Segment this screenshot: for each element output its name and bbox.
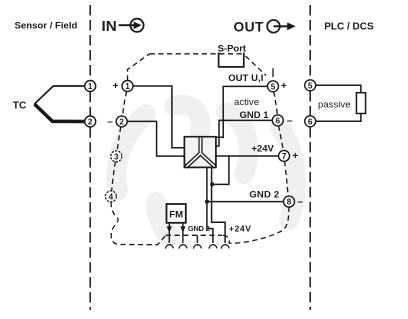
wire +24V rail to terminal 7 xyxy=(229,155,279,157)
device terminal 1 xyxy=(122,81,133,92)
device terminal 8 xyxy=(284,196,295,207)
wire isolator output to terminal 5 (OUT U,I) xyxy=(216,86,268,137)
svg-text:2: 2 xyxy=(119,117,124,126)
device outline dashed top-left xyxy=(128,54,150,81)
boundary terminal 6 (right) xyxy=(305,116,316,127)
svg-text:active: active xyxy=(234,97,259,108)
device terminal 4 (dashed, unused) xyxy=(105,191,116,202)
wire PLC terminal 5 to load resistor xyxy=(316,85,361,92)
svg-text:5: 5 xyxy=(271,82,276,91)
svg-text:5: 5 xyxy=(308,81,313,90)
device outline dashed top-right diagonal xyxy=(246,56,267,76)
device outline dashed left edge segment 3-4 xyxy=(112,162,116,192)
svg-text:+: + xyxy=(281,81,287,92)
svg-text:OUT U,I: OUT U,I xyxy=(228,73,263,84)
svg-text:3: 3 xyxy=(114,152,119,161)
svg-text:8: 8 xyxy=(287,198,292,207)
svg-text:1: 1 xyxy=(125,82,130,91)
FM module box xyxy=(167,204,186,223)
svg-text:–: – xyxy=(107,116,113,127)
ground contact symbol 3 xyxy=(194,245,202,249)
housing ground stub xyxy=(196,235,198,243)
device terminal 6 xyxy=(272,115,283,126)
OUT icon (circle with arrow out) xyxy=(267,20,287,33)
FM ground wire right with arrow xyxy=(182,223,184,243)
svg-text:+24V: +24V xyxy=(251,144,274,155)
junction dot GND 2 xyxy=(205,200,209,204)
field boundary dashed line (left) xyxy=(89,5,91,310)
junction dot +24V xyxy=(210,182,214,186)
svg-text:1: 1 xyxy=(88,82,93,91)
svg-text:GND 1: GND 1 xyxy=(240,110,270,121)
svg-text:+: + xyxy=(113,81,119,92)
wire load resistor to PLC terminal 6 xyxy=(316,114,361,122)
thermocouple TC lower wire (thick) xyxy=(34,104,85,122)
boundary terminal 2 (left) xyxy=(85,116,96,127)
wire terminal1 to isolator input xyxy=(133,86,185,148)
wire isolator to terminal 6 (GND 1) xyxy=(216,120,273,146)
svg-text:–: – xyxy=(287,115,293,126)
device outline dashed right edge segment 7-8 xyxy=(285,161,289,196)
device terminal 3 (dashed, unused) xyxy=(111,151,122,162)
watermark logo xyxy=(116,105,295,236)
device outline dashed bottom-right xyxy=(223,207,289,243)
device outline dashed left edge segment 2-3 xyxy=(117,127,121,152)
svg-text:6: 6 xyxy=(276,116,281,125)
isolation amplifier U1 xyxy=(184,137,216,168)
svg-text:PLC / DCS: PLC / DCS xyxy=(324,22,374,33)
PLC boundary dashed line (right) xyxy=(309,5,311,310)
device outline dashed bottom raised segment xyxy=(166,234,222,236)
device terminal 2 xyxy=(116,116,127,127)
wire GND 2 to terminal 8 xyxy=(207,201,284,203)
boundary terminal 5 (right) xyxy=(305,80,316,91)
svg-text:TC: TC xyxy=(13,101,27,112)
device outline dashed top edge xyxy=(150,53,244,55)
device terminal 7 xyxy=(279,150,290,161)
wire isolator bottom right pin to ground xyxy=(212,168,226,243)
load resistor R xyxy=(356,93,365,114)
device outline dashed bottom-left corner xyxy=(111,202,166,245)
svg-text:GND 2: GND 2 xyxy=(249,190,279,201)
wire isolator bottom left pin to ground xyxy=(207,168,213,243)
svg-text:IN: IN xyxy=(102,18,117,35)
svg-text:2: 2 xyxy=(88,118,93,127)
svg-text:6: 6 xyxy=(308,117,313,126)
IN icon (arrow into circle) xyxy=(119,19,144,32)
svg-text:Sensor / Field: Sensor / Field xyxy=(15,21,78,32)
device outline dashed right edge segment 6-7 xyxy=(279,126,284,151)
wire terminal2 to isolator input xyxy=(127,121,185,156)
ground contact symbol 5 xyxy=(221,245,229,249)
svg-text:passive: passive xyxy=(318,100,351,111)
svg-text:FM: FM xyxy=(169,209,183,220)
svg-text:+24V: +24V xyxy=(229,223,252,233)
S-Port connector box xyxy=(219,53,244,67)
svg-text:7: 7 xyxy=(282,152,287,161)
ground contact symbol 4 xyxy=(209,245,217,249)
svg-text:GND 2: GND 2 xyxy=(188,224,210,233)
FM ground wire left with arrow xyxy=(168,223,170,243)
svg-text:+: + xyxy=(292,151,298,162)
svg-text:4: 4 xyxy=(109,192,114,201)
svg-text:S-Port: S-Port xyxy=(218,44,247,55)
boundary terminal 1 (left) xyxy=(85,81,96,92)
svg-text:–: – xyxy=(297,197,303,208)
device outline dashed right edge segment 5-6 xyxy=(274,92,278,116)
wire isolator right pin to +24V rail xyxy=(212,156,229,184)
ground contact symbol 2 xyxy=(179,245,187,249)
device outline dashed left edge segment 1-2 xyxy=(123,91,127,116)
thermocouple TC upper wire (thin) xyxy=(34,86,85,104)
ground contact symbol 1 xyxy=(165,245,173,249)
svg-text:OUT: OUT xyxy=(234,19,264,34)
device terminal 5 xyxy=(268,81,279,92)
